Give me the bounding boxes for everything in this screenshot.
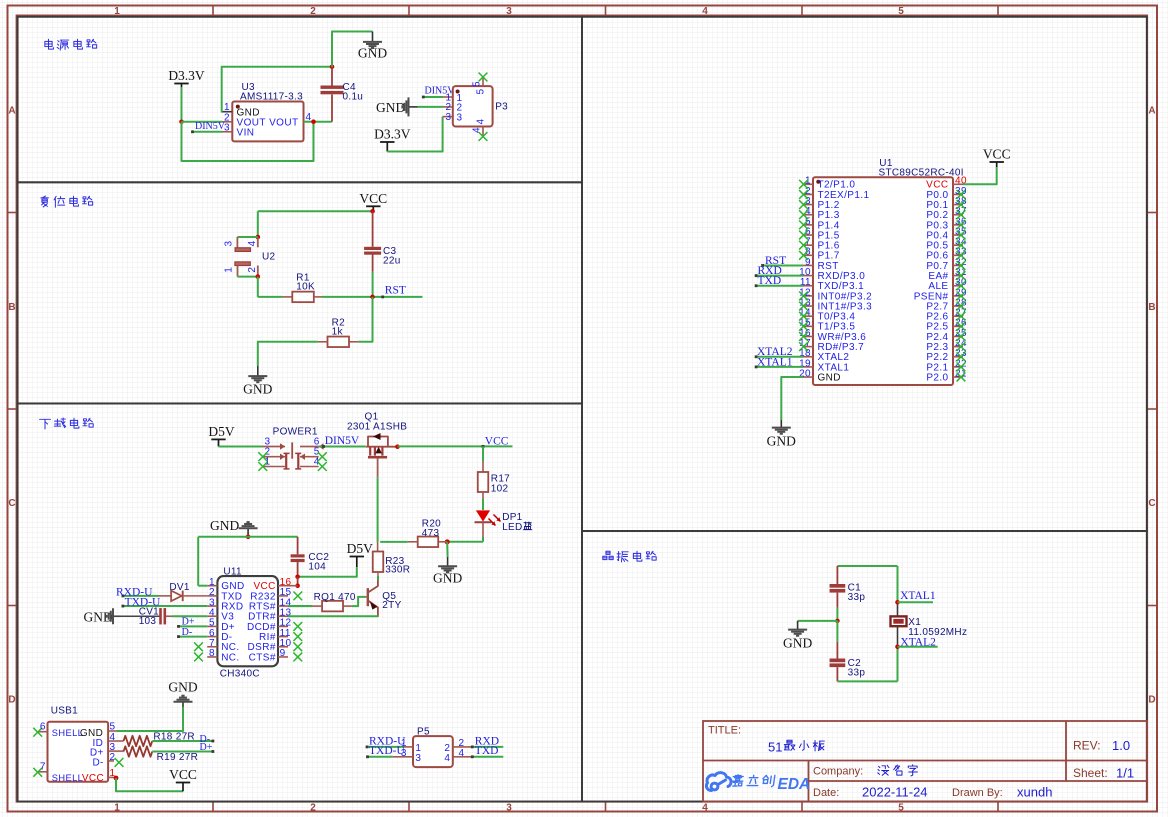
svg-text:D: D (8, 695, 15, 706)
svg-text:DIN5V: DIN5V (325, 435, 360, 447)
svg-text:330R: 330R (385, 564, 410, 575)
svg-text:USB1: USB1 (51, 706, 78, 717)
svg-text:4: 4 (476, 118, 487, 124)
svg-text:22u: 22u (383, 255, 401, 266)
svg-text:7: 7 (40, 761, 46, 772)
svg-text:1: 1 (114, 802, 120, 813)
svg-text:RST: RST (385, 285, 406, 297)
svg-text:6: 6 (40, 721, 46, 732)
svg-text:2: 2 (310, 6, 316, 17)
svg-text:1.0: 1.0 (1112, 738, 1130, 753)
svg-text:P2.0: P2.0 (926, 372, 948, 383)
svg-text:D3.3V: D3.3V (168, 68, 205, 83)
svg-text:33p: 33p (848, 668, 866, 679)
svg-text:0.1u: 0.1u (343, 92, 364, 103)
svg-text:D3.3V: D3.3V (374, 127, 411, 142)
svg-text:4: 4 (702, 6, 708, 17)
svg-text:1: 1 (265, 457, 271, 468)
svg-text:GND: GND (818, 372, 841, 383)
svg-text:D+: D+ (200, 742, 213, 753)
svg-text:102: 102 (491, 484, 509, 495)
svg-text:A: A (8, 106, 15, 117)
svg-text:RQ1 470: RQ1 470 (314, 592, 356, 603)
svg-text:2301 A1SHB: 2301 A1SHB (347, 422, 407, 433)
svg-text:5: 5 (898, 802, 904, 813)
svg-text:D5V: D5V (347, 541, 373, 556)
svg-text:DIN5V: DIN5V (195, 121, 226, 132)
svg-text:3: 3 (415, 753, 421, 764)
svg-text:10K: 10K (296, 282, 315, 293)
svg-text:GND: GND (358, 46, 387, 61)
svg-text:3: 3 (446, 112, 452, 123)
svg-text:LED: LED (502, 522, 522, 533)
svg-text:3: 3 (457, 113, 463, 124)
svg-text:GND: GND (376, 100, 405, 115)
svg-text:U2: U2 (262, 252, 276, 263)
svg-text:D-: D- (182, 627, 193, 638)
svg-text:1/1: 1/1 (1116, 766, 1134, 781)
svg-text:B: B (1148, 302, 1155, 313)
svg-text:1k: 1k (332, 327, 344, 338)
svg-text:NC.: NC. (221, 652, 239, 663)
svg-text:Date:: Date: (813, 787, 839, 799)
svg-text:VIN: VIN (237, 127, 255, 138)
svg-text:SHELL: SHELL (52, 728, 83, 738)
svg-text:473: 473 (422, 528, 440, 539)
svg-text:SHELL: SHELL (52, 773, 83, 783)
svg-text:103: 103 (139, 616, 157, 627)
svg-text:GND: GND (210, 518, 239, 533)
svg-text:5: 5 (898, 6, 904, 17)
svg-text:GND: GND (767, 434, 796, 449)
svg-text:2022-11-24: 2022-11-24 (862, 785, 928, 800)
svg-text:4: 4 (702, 802, 708, 813)
svg-text:GND: GND (168, 679, 197, 694)
svg-text:XTAL1: XTAL1 (757, 356, 793, 368)
svg-text:C: C (1148, 498, 1155, 509)
svg-text:R19 27R: R19 27R (157, 752, 199, 763)
svg-text:XTAL1: XTAL1 (900, 590, 936, 602)
svg-text:GND: GND (433, 571, 462, 586)
svg-text:CTS#: CTS# (249, 652, 276, 663)
svg-text:P3: P3 (495, 102, 508, 113)
svg-text:D+: D+ (182, 616, 195, 627)
svg-text:VCC: VCC (983, 147, 1011, 162)
svg-text:GND: GND (783, 636, 812, 651)
svg-text:2TY: 2TY (382, 600, 401, 611)
svg-text:4: 4 (472, 127, 483, 133)
svg-text:3: 3 (506, 6, 512, 17)
svg-text:5: 5 (476, 88, 487, 94)
svg-text:REV:: REV: (1073, 739, 1101, 753)
svg-text:33p: 33p (848, 592, 866, 603)
svg-text:1: 1 (224, 267, 235, 273)
svg-text:TXD: TXD (475, 745, 499, 757)
svg-text:Drawn By:: Drawn By: (952, 787, 1003, 799)
svg-text:EDA: EDA (778, 776, 811, 793)
svg-text:4: 4 (247, 240, 258, 246)
svg-text:D: D (1148, 695, 1155, 706)
svg-text:D5V: D5V (208, 424, 234, 439)
svg-text:3: 3 (224, 240, 235, 246)
svg-text:51: 51 (768, 740, 782, 755)
svg-text:2: 2 (247, 267, 258, 273)
svg-text:xundh: xundh (1017, 785, 1052, 800)
svg-text:5: 5 (472, 81, 483, 87)
svg-text:B: B (8, 302, 15, 313)
svg-text:8: 8 (209, 648, 215, 659)
svg-text:CH340C: CH340C (220, 669, 260, 680)
svg-text:3: 3 (506, 802, 512, 813)
svg-text:Sheet:: Sheet: (1073, 766, 1108, 780)
svg-text:POWER1: POWER1 (273, 427, 318, 438)
svg-text:D-: D- (92, 757, 103, 768)
svg-text:TITLE:: TITLE: (708, 725, 741, 737)
svg-text:Company:: Company: (813, 766, 863, 778)
svg-text:GND: GND (243, 382, 272, 397)
svg-text:XTAL2: XTAL2 (900, 636, 936, 648)
svg-text:5: 5 (110, 722, 116, 733)
svg-text:TXD-U: TXD-U (369, 745, 405, 757)
svg-text:4: 4 (444, 753, 450, 764)
svg-text:VCC: VCC (82, 773, 104, 784)
svg-text:A: A (1148, 106, 1155, 117)
svg-text:9: 9 (280, 648, 286, 659)
svg-text:VOUT: VOUT (269, 117, 298, 128)
svg-text:1: 1 (114, 6, 120, 17)
svg-text:2: 2 (310, 802, 316, 813)
svg-text:C: C (8, 498, 15, 509)
svg-text:VCC: VCC (169, 767, 197, 782)
svg-text:2: 2 (110, 752, 116, 763)
svg-text:104: 104 (308, 562, 326, 573)
svg-text:TXD: TXD (758, 275, 782, 287)
svg-text:VCC: VCC (359, 191, 387, 206)
